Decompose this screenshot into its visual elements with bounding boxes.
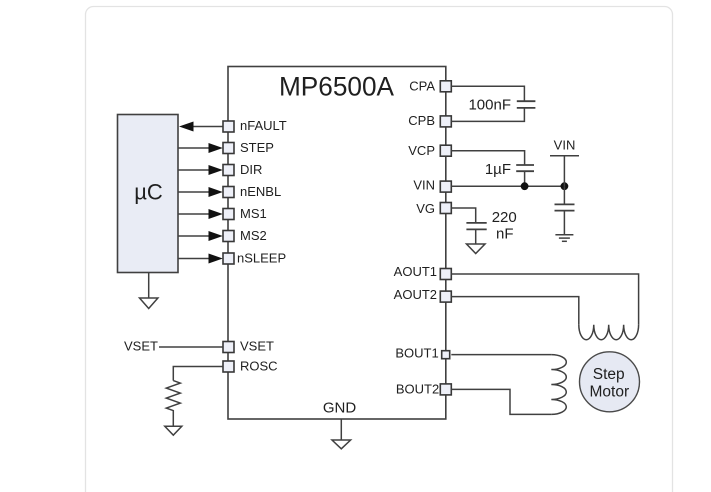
wire ROSC to resistor — [173, 367, 223, 381]
wire C4 to ground — [475, 229, 477, 244]
wire MS1 with arrow — [178, 209, 223, 219]
winding phase A — [579, 325, 639, 340]
svg-text:DIR: DIR — [240, 162, 262, 177]
svg-text:nF: nF — [496, 226, 514, 243]
svg-text:VCP: VCP — [408, 143, 435, 158]
pin STEP — [223, 140, 274, 155]
wire GND pin — [340, 419, 342, 440]
svg-text:VIN: VIN — [413, 177, 435, 192]
wire VIN net to C3 — [563, 186, 565, 204]
junction node at C2 — [521, 182, 529, 190]
svg-text:MP6500A: MP6500A — [279, 72, 394, 102]
capacitor C4 220nF — [466, 209, 516, 243]
svg-text:VSET: VSET — [240, 339, 274, 354]
svg-text:1µF: 1µF — [485, 161, 511, 178]
capacitor C3 bulk — [555, 204, 575, 210]
supply VIN symbol — [550, 138, 579, 187]
wire CPA to C1 — [451, 86, 524, 101]
pin ROSC — [223, 359, 278, 374]
step motor M1 — [580, 352, 640, 412]
pin AOUT2 — [394, 287, 452, 302]
wire VIN pin to VIN net — [451, 185, 564, 187]
wire BOUT1 — [451, 354, 551, 356]
pin VIN — [413, 177, 451, 192]
svg-text:VG: VG — [416, 201, 435, 216]
svg-text:MS1: MS1 — [240, 206, 267, 221]
svg-text:VIN: VIN — [554, 138, 576, 153]
pin CPA — [409, 79, 451, 94]
pin VG — [416, 201, 451, 216]
ground below C4 — [467, 244, 486, 254]
wire STEP with arrow — [178, 143, 223, 153]
wire nENBL with arrow — [178, 187, 223, 197]
earth ground below C3 — [555, 235, 573, 242]
pin VCP — [408, 143, 451, 158]
pin BOUT2 — [396, 382, 451, 397]
pin nENBL — [223, 184, 281, 199]
pin MS2 — [223, 228, 267, 243]
svg-text:ROSC: ROSC — [240, 359, 278, 374]
svg-text:µC: µC — [134, 180, 163, 205]
svg-text:100nF: 100nF — [468, 97, 511, 114]
wire C1 to CPB — [451, 108, 524, 121]
svg-text:AOUT1: AOUT1 — [394, 264, 437, 279]
capacitor C1 100nF — [468, 97, 535, 114]
microcontroller µC — [118, 115, 179, 273]
svg-text:MS2: MS2 — [240, 228, 267, 243]
wire AOUT2 — [451, 297, 579, 325]
ground below resistor R1 — [165, 426, 182, 435]
resistor R1 on ROSC — [166, 381, 180, 427]
pin nSLEEP — [223, 251, 286, 266]
IC U1 body — [228, 67, 446, 420]
pin VSET — [223, 339, 274, 354]
svg-text:AOUT2: AOUT2 — [394, 287, 437, 302]
pin nFAULT — [223, 118, 287, 133]
wire AOUT1 — [451, 274, 638, 325]
svg-text:nFAULT: nFAULT — [240, 118, 287, 133]
svg-text:VSET: VSET — [124, 339, 158, 354]
svg-text:CPB: CPB — [408, 113, 435, 128]
ground below µC — [140, 273, 158, 309]
svg-text:BOUT1: BOUT1 — [395, 346, 438, 361]
wire MS2 with arrow — [178, 231, 223, 241]
pin CPB — [408, 113, 451, 128]
svg-text:GND: GND — [323, 400, 357, 417]
winding phase B — [551, 355, 566, 415]
wire VCP to C2 — [451, 151, 524, 165]
svg-text:STEP: STEP — [240, 140, 274, 155]
svg-text:Motor: Motor — [589, 384, 629, 401]
svg-text:nENBL: nENBL — [240, 184, 281, 199]
wire VSET input — [159, 346, 223, 348]
wire C2 to VIN net — [524, 171, 526, 186]
pin MS1 — [223, 206, 267, 221]
wire C3 to earth — [563, 211, 565, 235]
svg-text:220: 220 — [492, 209, 517, 226]
svg-text:Step: Step — [593, 366, 625, 383]
ground below GND — [332, 440, 351, 449]
wire nFAULT with arrow to µC — [179, 122, 223, 132]
pin BOUT1 — [395, 346, 449, 361]
pin AOUT1 — [394, 264, 452, 279]
svg-text:nSLEEP: nSLEEP — [237, 251, 286, 266]
svg-text:CPA: CPA — [409, 79, 435, 94]
wire DIR with arrow — [178, 165, 223, 175]
capacitor C2 1µF — [485, 161, 534, 178]
wire VG to C4 — [451, 208, 475, 223]
wire BOUT2 — [451, 389, 551, 414]
svg-text:BOUT2: BOUT2 — [396, 382, 439, 397]
wire nSLEEP with arrow — [178, 254, 223, 264]
pin DIR — [223, 162, 262, 177]
junction node at VIN supply — [561, 182, 569, 190]
